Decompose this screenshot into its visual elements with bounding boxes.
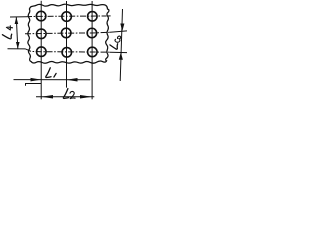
row 3 centerline (dash-dot) with left extension offset	[8, 48, 26, 50]
dimension L2: line	[36, 96, 94, 98]
dimension L3: upper arrow (outside, pointing down)	[120, 24, 124, 32]
dimension L4: line	[16, 17, 18, 49]
hole r1c3	[88, 12, 98, 22]
label L1	[46, 68, 56, 78]
dimension L1: left arrow (outside, pointing right)	[31, 78, 42, 82]
dimension L4: top arrow (inside, pointing up)	[15, 17, 19, 24]
column 2 centerline	[66, 1, 68, 88]
column 3 centerline	[91, 1, 93, 99]
column 1 centerline	[40, 1, 42, 100]
hole r2c2	[61, 28, 71, 38]
dimension L4: bottom arrow (inside, pointing down)	[16, 42, 20, 49]
hole r3c2	[62, 48, 72, 58]
dimension L1: right arrow (outside, pointing left)	[67, 78, 78, 82]
dimension L3: lower arrow (outside, pointing up)	[119, 52, 123, 60]
hole r3c1	[37, 47, 47, 57]
label L4	[2, 26, 12, 39]
hole r3c3	[88, 47, 98, 57]
hole r2c3	[87, 28, 97, 38]
label L3	[110, 36, 121, 49]
label L2	[63, 89, 75, 99]
hole r1c1	[36, 11, 46, 21]
hole r2c1	[37, 29, 47, 39]
plate outline (wavy broken-out sheet edge)	[28, 4, 109, 63]
dimension L2: right arrow (inside, pointing right)	[80, 95, 92, 99]
dimension L1: line	[14, 79, 91, 81]
hole r1c2	[62, 12, 72, 22]
stray hook line left of col1	[26, 84, 42, 86]
dimension L2: left arrow (inside, pointing left)	[41, 95, 53, 99]
row 2 centerline (dash-dot)	[25, 32, 110, 34]
row 1 centerline (dash-dot)	[10, 16, 26, 18]
dimension L3: line	[120, 9, 122, 81]
